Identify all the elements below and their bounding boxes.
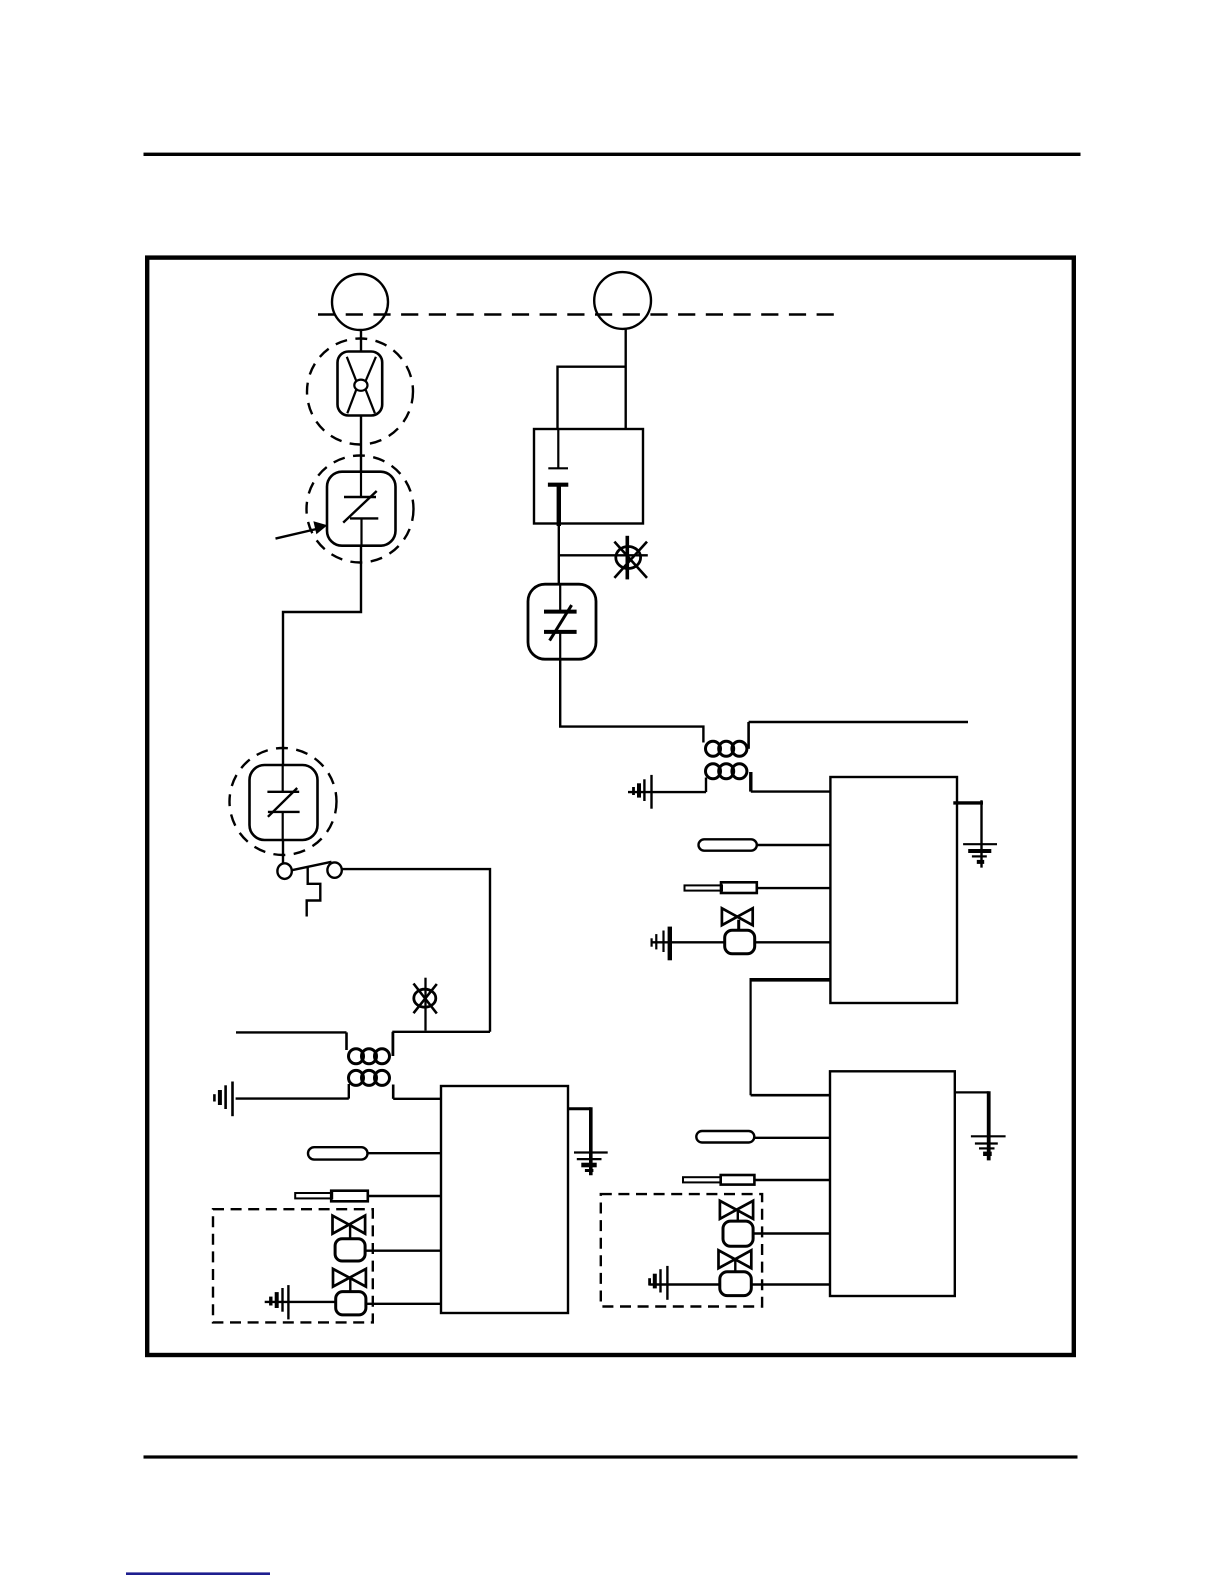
wire: [368, 1152, 442, 1154]
wire to chassis ground: [628, 791, 706, 793]
wire: [625, 329, 627, 429]
converter U1: [327, 472, 396, 546]
control block B1: [441, 1086, 568, 1313]
wire: [757, 887, 831, 889]
disconnect switch S1: [277, 862, 341, 879]
switch linkage: [307, 867, 321, 917]
wire (grid stub): [749, 721, 968, 723]
sensor capsule (B3): [696, 1131, 754, 1143]
wire jog: [560, 659, 703, 742]
wire: [283, 546, 361, 765]
valve V1: [333, 1216, 366, 1261]
valve V5: [719, 1250, 752, 1295]
wire: [393, 1098, 441, 1100]
temperature probe (B2): [685, 882, 757, 893]
wire: [558, 526, 560, 585]
wire: [753, 1232, 830, 1234]
chassis ground (V3): [652, 927, 670, 961]
sensor capsule (B1): [308, 1147, 368, 1159]
transformer T2: [706, 722, 751, 792]
chassis ground (V2): [271, 1285, 289, 1319]
converter U2: [250, 765, 318, 840]
dashed enclosure (left valves): [213, 1209, 373, 1322]
wire to chassis ground: [236, 1097, 349, 1099]
wire: [342, 869, 490, 1032]
chassis ground (T1 secondary): [214, 1082, 232, 1117]
converter U3: [528, 584, 596, 659]
top rule: [144, 153, 1081, 156]
wire: [751, 1283, 830, 1285]
wire: [751, 790, 831, 792]
wire: [651, 941, 724, 943]
battery cabinet: [534, 429, 643, 524]
wire: [368, 1195, 441, 1197]
generator G1: [332, 274, 388, 330]
wire: [754, 1137, 830, 1139]
earth ground (B3): [971, 1136, 1006, 1154]
dashed circle (converter bay): [307, 456, 414, 563]
wire: [757, 844, 831, 846]
figure frame: [147, 258, 1074, 1355]
wire: [754, 1179, 830, 1181]
wire: [282, 840, 284, 864]
wire: [392, 1031, 490, 1033]
battery cell: [548, 429, 568, 526]
dashed circle (converter bay 2): [230, 748, 337, 855]
control block B2: [830, 777, 957, 1003]
generator G2: [594, 272, 651, 329]
lamp L2: [614, 536, 647, 580]
lamp L1: [414, 978, 437, 1031]
link wire B2 to B3: [751, 978, 831, 1095]
earth ground stub (B3): [955, 1091, 989, 1160]
hyperlink underline: [126, 1572, 270, 1575]
dashed enclosure (right valves): [601, 1194, 762, 1306]
chassis ground (T2 secondary): [634, 775, 652, 809]
wire: [649, 1283, 719, 1285]
datum dashed line: [318, 313, 835, 315]
earth ground (B1): [574, 1153, 608, 1171]
earth ground (B2): [963, 844, 997, 862]
wire: [360, 416, 362, 472]
wire: [365, 1249, 441, 1251]
breaker Q1: [338, 352, 383, 416]
dashed circle (breaker bay): [307, 339, 413, 445]
transformer T1: [347, 1032, 394, 1099]
temperature probe (B1): [295, 1191, 368, 1202]
feeder stub wire: [236, 1031, 347, 1033]
sensor capsule (B2): [699, 839, 757, 850]
wire: [360, 330, 362, 352]
earth ground stub: [567, 1107, 591, 1175]
wire: [265, 1301, 336, 1303]
arrow pointer: [276, 521, 328, 538]
wire to lamp: [559, 554, 648, 556]
chassis ground (V5): [650, 1266, 668, 1300]
temperature probe (B3): [683, 1175, 754, 1185]
wire: [366, 1303, 441, 1305]
earth ground stub (B2): [953, 800, 983, 867]
wire: [755, 941, 831, 943]
valve V2: [333, 1269, 366, 1315]
control block B3: [830, 1071, 955, 1296]
auxiliary box: [558, 367, 626, 429]
valve V4: [720, 1201, 753, 1246]
valve V3: [722, 908, 755, 953]
bottom rule: [144, 1455, 1078, 1458]
